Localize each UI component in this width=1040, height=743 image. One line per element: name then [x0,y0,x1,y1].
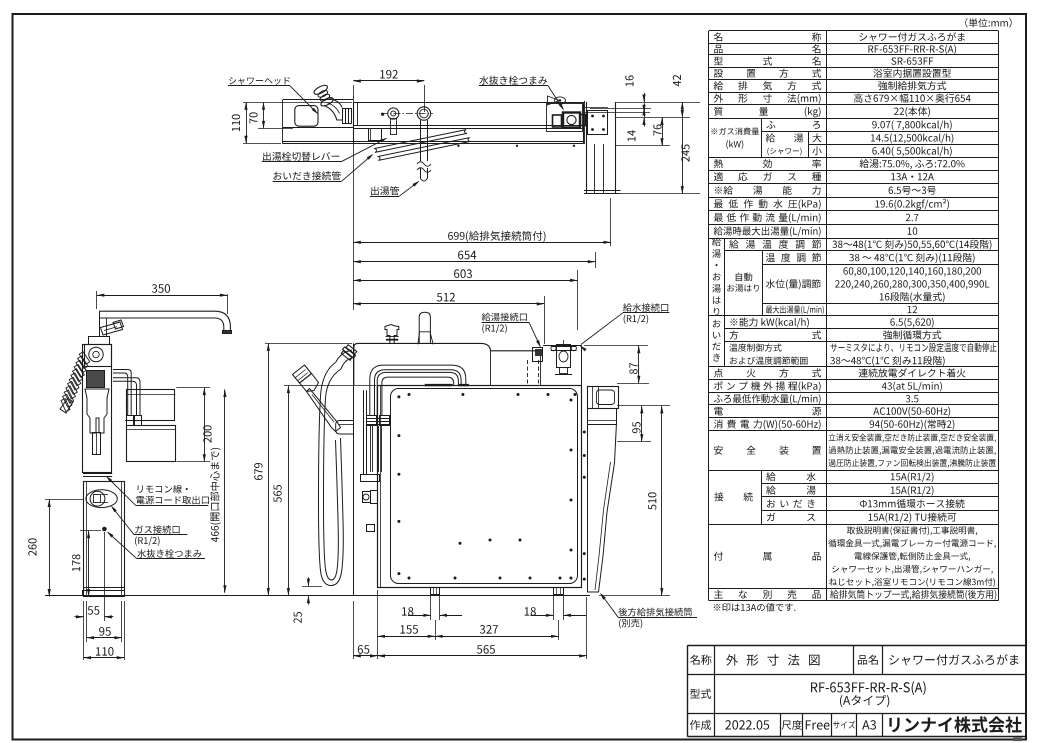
dim 699 [353,96,355,310]
dim 565 bottom [378,655,587,657]
label 後方給排気接続筒 [618,608,692,617]
dim 603 [577,270,579,330]
dim 76 [662,118,664,146]
dim 200 [204,388,206,462]
top view: outlet pipe joint circle [417,107,430,120]
main view: 給水 valve assembly [557,345,571,368]
dim 14 [644,103,646,112]
dim 87 [638,346,640,384]
dim 178 [88,531,90,597]
dim 42 and dim 245 (chained) [682,102,684,194]
top view: 出湯管 outlet tube [420,120,422,161]
front view: rear heater body [127,390,175,421]
dim 16 [644,93,646,102]
dim 155 [378,636,436,638]
tiny page number [1013,738,1022,742]
dim 55 [75,616,84,618]
label リモコン線・電源コード取出口 [138,485,188,494]
dim 679 [268,343,270,595]
dim 95 [641,406,643,442]
footnote [714,603,796,612]
dim 65 [353,601,355,659]
label 出湯栓切替レバー [263,152,339,161]
main view: top cover [354,343,541,385]
top view: exhaust duct [586,102,588,194]
main view: drain stem on cover [419,312,430,343]
dim 654 [595,252,597,268]
main view: right rear panel edge [543,345,582,347]
top view: drain assembly 水抜き栓 [547,104,583,132]
dim 25 [308,577,310,586]
label ガス接続口 [135,525,180,534]
dim 70 (top view) [263,102,265,128]
group label おいだき [713,320,721,328]
label おいだき接続管 [273,171,340,180]
dim 192 [353,80,424,82]
top view dimensions [353,85,355,98]
label 水抜き栓つまみ (front) [137,549,201,558]
top view: spout valve lever 出湯栓 [369,129,382,141]
front view: funnel body [85,389,109,433]
main view: side fittings [363,492,371,503]
front view: column upper [83,345,112,473]
spec table rows [714,32,722,41]
dim 327 [435,636,558,638]
label 給湯接続口 [482,313,527,322]
dim 260 [49,500,51,597]
main view: rear exhaust adapter (chimney) [587,425,589,593]
top view: shower elbow [330,99,343,108]
label 給水接続口 [623,303,668,312]
top view: right bracket plate [588,111,608,135]
main view: shower head hanging [293,365,312,383]
label 出湯管 [371,186,399,195]
front view: column base [84,587,125,589]
top view: shower head [295,106,318,127]
front view: shower hose (corrugated) [79,352,90,365]
top view: centerline [381,113,433,115]
front view: valve head [89,337,110,345]
floor line [45,595,590,597]
unit note [965,18,1011,27]
label シャワーヘッド [229,77,290,85]
main view: hose loop [319,362,344,586]
main view: 給湯 connection fitting [533,348,543,362]
dim 110 [84,657,125,659]
front view: faucet spout [99,311,230,330]
front view: gas port oval [86,490,117,508]
front view: column lower [84,482,125,597]
main view: shower hose hanging [336,350,352,362]
main view: shower hanger hook [336,421,354,435]
group label 給湯・お湯はり [712,237,721,246]
main view: bolt dots [408,393,411,396]
main view: left pipe pair [363,390,365,474]
dim 466 [224,390,226,593]
main view dimensions [265,343,352,345]
main view: shower handle [307,389,341,432]
main view: U pipes over top [370,365,466,415]
spec table grid [709,30,999,32]
title block [688,645,1027,647]
main view: pipe couplings [367,416,377,426]
front view: drain plug dot [102,527,107,532]
main view: legs [431,588,440,595]
top view: hot water valve stem [388,108,399,119]
label 水抜き栓つまみ (top) [479,76,547,85]
main view: unit left edge [353,343,355,595]
dim 110 (top view) [246,102,248,143]
main view: exhaust stub [588,387,619,409]
dim 565 [288,386,290,596]
front view: pipes to rear body [113,370,131,416]
dim 18 (left leg) [408,615,431,617]
main view: faucet profile on cover [385,325,399,344]
top view: main body [353,102,583,104]
dim 95 [87,637,122,639]
main view: combustion box [378,386,582,588]
dim 18 (right leg) [531,615,554,617]
dim 510 [661,406,663,596]
pipe slots on box top [425,384,453,386]
top view: おいだき接続管 diagonal pipes [374,130,467,153]
front view dimensions [96,291,98,309]
front view: grille block [87,371,105,388]
front view: spout lever handle [101,322,123,335]
dim 512 [544,296,546,344]
